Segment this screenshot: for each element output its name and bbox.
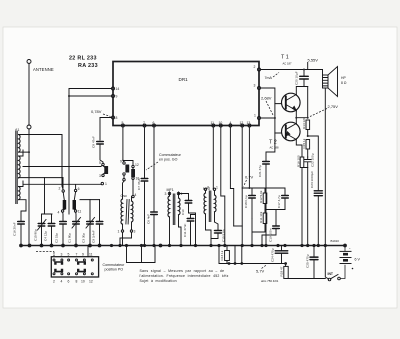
svg-text:C23 1000µF: C23 1000µF <box>310 171 314 188</box>
svg-text:R15 1k: R15 1k <box>302 138 306 148</box>
cap C2 <box>60 212 67 245</box>
svg-text:R11 10k: R11 10k <box>259 211 263 223</box>
link wires top of caps <box>80 199 100 201</box>
svg-text:2: 2 <box>59 187 61 191</box>
svg-text:T 2: T 2 <box>269 140 277 146</box>
bus junction dots <box>19 244 347 248</box>
svg-text:INT: INT <box>328 272 334 276</box>
wire pin10 down <box>221 127 225 246</box>
wire pin11 down <box>212 127 214 189</box>
GO switch contact a <box>102 163 104 165</box>
svg-text:B1910: B1910 <box>331 239 340 243</box>
svg-text:C8 47nF: C8 47nF <box>92 136 96 148</box>
A1 winding 1 <box>19 135 21 153</box>
svg-text:R16 100: R16 100 <box>297 155 301 167</box>
svg-text:0,78V: 0,78V <box>91 109 102 114</box>
svg-text:T 1: T 1 <box>281 55 289 61</box>
5,7V supply rail <box>219 246 286 264</box>
wire pin6 down <box>153 127 155 211</box>
svg-text:5,55V: 5,55V <box>308 58 319 63</box>
svg-text:R12 5,6k: R12 5,6k <box>259 190 263 203</box>
svg-text:R13 1k: R13 1k <box>220 250 224 260</box>
wire pin3 to base <box>261 88 282 104</box>
wire pin9 left <box>69 96 112 191</box>
svg-text:C17 4,7µ: C17 4,7µ <box>277 195 281 208</box>
svg-text:7: 7 <box>76 253 78 257</box>
svg-text:C10: C10 <box>181 209 185 215</box>
svg-text:R14 120: R14 120 <box>302 117 306 129</box>
PO switch block <box>51 257 98 277</box>
svg-text:en pos. GO: en pos. GO <box>159 158 178 162</box>
svg-text:4: 4 <box>135 193 137 197</box>
cap C10 <box>185 194 192 214</box>
wire pin12 down <box>241 127 243 246</box>
antenna wire <box>28 63 30 125</box>
svg-text:alim 756 4/01: alim 756 4/01 <box>261 279 279 283</box>
wire pin4 down <box>230 127 233 226</box>
svg-text:l'alimentation. Fréquence inte: l'alimentation. Fréquence intermédiaire … <box>140 274 229 278</box>
A1 winding 2 <box>19 156 21 178</box>
svg-text:2: 2 <box>254 65 256 69</box>
svg-text:6: 6 <box>68 280 70 284</box>
svg-text:HP: HP <box>341 76 346 80</box>
svg-text:4: 4 <box>61 280 63 284</box>
below-bus loop wires <box>127 246 156 263</box>
svg-text:8: 8 <box>116 116 118 120</box>
svg-text:6: 6 <box>78 187 80 191</box>
pin 2 <box>258 68 261 71</box>
capacitor C6 <box>151 212 158 215</box>
antenna wire lower <box>28 129 30 246</box>
wire from A1 to osc <box>62 135 63 189</box>
capacitor C8 <box>97 142 104 145</box>
svg-text:3: 3 <box>165 192 167 196</box>
svg-text:C15 5,6n: C15 5,6n <box>222 229 226 242</box>
resistor R11 <box>265 210 285 214</box>
pin 8 <box>112 116 115 119</box>
wire pin13 down <box>248 127 250 188</box>
svg-text:11: 11 <box>89 253 93 257</box>
speaker HP <box>323 67 338 246</box>
svg-text:C1 80p: C1 80p <box>68 233 72 243</box>
svg-text:C22 100µ: C22 100µ <box>311 153 315 167</box>
T2 emitter wire <box>296 140 302 158</box>
svg-text:Sujet à modification: Sujet à modification <box>140 279 177 283</box>
svg-text:1: 1 <box>254 114 256 118</box>
wire pin2 rail <box>261 69 323 71</box>
capacitor C20 <box>297 70 309 87</box>
trimmer C1 <box>72 212 81 245</box>
svg-text:C20 10µF: C20 10µF <box>295 71 299 85</box>
A1 frame <box>19 135 64 212</box>
svg-text:5: 5 <box>68 253 70 257</box>
cap C19 <box>262 210 280 246</box>
svg-text:C24 470µ: C24 470µ <box>271 248 275 262</box>
svg-text:6 V: 6 V <box>355 258 361 262</box>
wire pin14 left <box>69 89 112 97</box>
svg-text:Osc: Osc <box>121 194 128 198</box>
svg-text:C25 470µ: C25 470µ <box>306 254 310 268</box>
cap C11 <box>187 215 196 246</box>
output node wires <box>296 87 307 124</box>
svg-text:C18 0,1µ: C18 0,1µ <box>244 195 248 208</box>
cap C4 <box>48 214 55 246</box>
battery 6V <box>340 246 352 279</box>
svg-text:5: 5 <box>99 161 101 165</box>
svg-text:RA 233: RA 233 <box>78 63 98 69</box>
C23 wire <box>308 136 323 246</box>
resistor R12 <box>252 188 265 193</box>
svg-text:C9 3,4nF: C9 3,4nF <box>92 230 96 243</box>
svg-text:2,75V: 2,75V <box>328 104 339 109</box>
svg-text:MF1: MF1 <box>167 188 174 192</box>
svg-text:3: 3 <box>207 186 209 190</box>
GO switch contact b <box>123 162 125 164</box>
wire pin1 to bases <box>261 104 282 133</box>
thick capacitor plates overlay <box>18 76 323 259</box>
svg-text:C3 30p: C3 30p <box>82 233 86 243</box>
svg-text:1: 1 <box>181 192 183 196</box>
pin 9 <box>112 95 115 98</box>
svg-text:C11 47nF: C11 47nF <box>183 224 187 237</box>
GO contacts left <box>62 190 64 192</box>
svg-text:AC 187: AC 187 <box>283 62 292 66</box>
cap C9 <box>96 200 103 246</box>
svg-text:1: 1 <box>118 230 120 234</box>
GO switch contact c <box>132 165 134 167</box>
capacitor C21 <box>263 133 275 246</box>
svg-text:3: 3 <box>61 253 63 257</box>
svg-text:22 RL 233: 22 RL 233 <box>69 56 97 62</box>
svg-text:position PO: position PO <box>105 268 124 272</box>
svg-text:C6 4nF: C6 4nF <box>147 214 151 224</box>
svg-text:C7 47µF: C7 47µF <box>137 178 141 190</box>
dashed link to PO <box>36 252 54 257</box>
resistor R chain mid <box>306 140 310 150</box>
svg-text:2: 2 <box>53 280 55 284</box>
svg-text:Commutateur: Commutateur <box>159 153 182 157</box>
trimmer C3 <box>86 200 95 246</box>
svg-text:ANTENNE: ANTENNE <box>33 67 54 72</box>
svg-text:0,7V: 0,7V <box>245 175 254 180</box>
svg-text:C19 100n: C19 100n <box>269 228 273 242</box>
T1 collector wire <box>295 87 297 95</box>
wire pin5 down <box>122 127 124 160</box>
svg-text:7mA: 7mA <box>265 76 273 80</box>
trimmer C15 <box>38 214 53 246</box>
transistor T2 <box>282 122 301 141</box>
A1 winding 3 <box>19 187 21 200</box>
resistor R chain top <box>306 120 310 130</box>
wire bus to PO pin 9 <box>87 246 89 257</box>
wire pin7 down <box>144 127 146 178</box>
transistor T1 <box>282 93 301 112</box>
pin4 wire into cluster <box>234 225 243 227</box>
left wire to GO switch <box>23 165 102 166</box>
antenna mid terminal <box>27 125 31 129</box>
svg-text:C15 80p: C15 80p <box>34 229 38 241</box>
wire C4 to A1 tap <box>44 178 46 214</box>
svg-text:14: 14 <box>116 87 120 91</box>
svg-text:C21 47µ: C21 47µ <box>258 165 262 177</box>
svg-text:2,68V: 2,68V <box>261 96 272 101</box>
svg-text:1: 1 <box>216 186 218 190</box>
svg-text:12: 12 <box>89 280 93 284</box>
svg-text:8 Ω: 8 Ω <box>341 81 347 85</box>
resistor R13 <box>226 246 228 264</box>
middle cluster: cap C18 <box>242 188 255 219</box>
svg-text:9: 9 <box>120 160 122 164</box>
wire pin8 <box>100 118 112 141</box>
junction pin9 wire <box>68 95 70 97</box>
below-bus network <box>275 246 288 264</box>
svg-text:Sans signal – Mesures par rapp: Sans signal – Mesures par rapport au – d… <box>140 269 225 273</box>
svg-text:1: 1 <box>105 182 107 186</box>
svg-text:C16 20nF: C16 20nF <box>13 222 17 236</box>
svg-text:Commutateur: Commutateur <box>103 263 126 267</box>
svg-text:R18 47: R18 47 <box>280 266 284 276</box>
cap C17 <box>265 188 289 210</box>
svg-text:3: 3 <box>99 174 101 178</box>
svg-text:DR1: DR1 <box>179 77 189 82</box>
resistor+cap parallel <box>300 157 304 168</box>
svg-text:5,7V: 5,7V <box>256 269 265 274</box>
svg-text:8: 8 <box>76 280 78 284</box>
antenna terminal top <box>27 60 31 64</box>
svg-text:C2 15p: C2 15p <box>55 233 59 243</box>
cap row: C16 <box>18 211 27 246</box>
main ground bus <box>21 245 346 247</box>
svg-text:9: 9 <box>116 95 118 99</box>
op IC DR1 <box>113 62 259 126</box>
svg-text:12: 12 <box>135 163 139 167</box>
svg-text:C4 12p: C4 12p <box>44 231 48 241</box>
svg-text:4: 4 <box>58 211 60 215</box>
wires through bus to rail <box>235 246 242 264</box>
pin 3 <box>258 87 261 90</box>
C25 capacitor <box>310 246 318 279</box>
capacitor C7 <box>141 179 148 182</box>
svg-text:3: 3 <box>134 230 136 234</box>
pin 14 <box>112 87 115 90</box>
PO contacts <box>54 261 86 272</box>
svg-text:11: 11 <box>78 210 82 214</box>
svg-text:9: 9 <box>82 253 84 257</box>
svg-text:AC 188: AC 188 <box>270 146 279 150</box>
pin 1 <box>258 117 261 120</box>
svg-text:3: 3 <box>254 84 256 88</box>
svg-text:10: 10 <box>81 280 85 284</box>
